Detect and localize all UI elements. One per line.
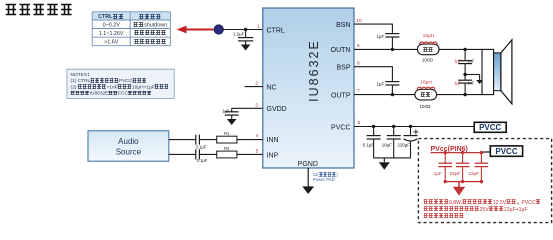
svg-text:22µF: 22µF [450, 171, 461, 176]
wire mid to ground [465, 75, 480, 81]
svg-text:FCC: FCC [118, 91, 128, 97]
junction BSP/OUTP [391, 93, 394, 96]
svg-text:25V: 25V [480, 207, 490, 213]
wire GVDD (pin 3) [232, 107, 263, 109]
svg-text:IU8632E: IU8632E [90, 91, 109, 97]
label power pad [313, 172, 338, 182]
inductor alternative 10µH (FB1) [420, 33, 438, 44]
wire cap to R1 [200, 139, 217, 141]
node CTRL input [214, 25, 223, 34]
svg-text:2.2µF: 2.2µF [233, 32, 244, 37]
svg-text:8: 8 [357, 61, 360, 67]
wire FB2 to output node [437, 93, 482, 96]
wire BSP (pin 8) [354, 66, 392, 81]
capacitor GVDD 1µF [222, 108, 239, 119]
svg-text:10µH: 10µH [420, 79, 432, 85]
svg-text:Audio: Audio [118, 137, 139, 146]
svg-text:PVCC: PVCC [479, 123, 501, 132]
capacitor alt 22µF (red) [450, 153, 470, 182]
capacitor Cp2 10µF [382, 127, 401, 158]
wire audio top [169, 139, 196, 141]
svg-text:R2: R2 [224, 146, 230, 151]
capacitor Cout2 1nF (alt 1µF) [454, 75, 475, 95]
audio source block [88, 131, 169, 161]
svg-text:PVCC: PVCC [331, 124, 350, 131]
capacitor bootstrap CBSN 1µF [376, 33, 399, 50]
ferrite bead FB1 磁珠 100Ω [417, 44, 439, 62]
svg-text:2: 2 [255, 81, 258, 87]
table CTRL states [92, 12, 170, 46]
ground (CTRL cap) [241, 45, 251, 51]
svg-text:+1nF: +1nF [107, 84, 118, 90]
svg-text:1: 1 [257, 23, 260, 29]
ground PGND [302, 186, 314, 194]
dashed note box [418, 139, 551, 223]
svg-text:3: 3 [255, 102, 258, 108]
svg-text:0.1µF: 0.1µF [196, 144, 207, 149]
wire red rail [431, 151, 484, 154]
net label PVCC [474, 122, 506, 132]
capacitor Cout1 1nF (alt 1µF) [454, 49, 475, 74]
svg-text:Source: Source [116, 147, 142, 156]
svg-text:100Ω: 100Ω [422, 57, 434, 62]
wire FB1 to output node [439, 48, 482, 51]
svg-text:7: 7 [357, 88, 360, 94]
svg-text:1µF: 1µF [222, 109, 230, 114]
ground (GVDD cap) [227, 119, 237, 125]
svg-text:10µF: 10µF [382, 143, 392, 148]
svg-text:22µF: 22µF [468, 171, 479, 176]
capacitor alt 22µF (red) [468, 153, 488, 182]
inductor alternative 10µH (FB2) [417, 79, 435, 89]
capacitor Cin2 0.1µF [196, 149, 208, 162]
svg-text:PGND: PGND [298, 161, 318, 168]
svg-text:0.8W,: 0.8W, [449, 200, 462, 206]
svg-text:22µF+1µF: 22µF+1µF [504, 207, 528, 213]
ground (output mid) [476, 80, 483, 84]
svg-text:1.1~1.26V: 1.1~1.26V [99, 31, 124, 37]
svg-text:BSP: BSP [336, 65, 350, 72]
wire red bottom rail [444, 180, 484, 183]
svg-text:(1) CTRL: (1) CTRL [71, 78, 91, 84]
resistor R1 [217, 131, 237, 143]
capacitor C1 2.2µF (CTRL) [233, 30, 253, 45]
net label PVCC (alt) [490, 146, 522, 156]
svg-text:IU8632E: IU8632E [307, 39, 321, 102]
junction BSN/OUTN [391, 48, 394, 51]
svg-text:12.5V: 12.5V [493, 200, 507, 206]
svg-text:1nF: 1nF [467, 58, 475, 63]
svg-text:10: 10 [356, 18, 362, 24]
svg-text:shutdown: shutdown [144, 22, 167, 28]
pin numbers [255, 18, 362, 154]
ground (red, arrow) [453, 182, 465, 196]
wire PVCC cap rail [374, 157, 411, 159]
svg-text:100Ω: 100Ω [419, 104, 431, 109]
note text (red) [424, 200, 540, 218]
wire R2 to INP (pin 5) [237, 153, 263, 155]
capacitor Cp1 0.1µF [363, 127, 381, 158]
svg-text:1µF: 1µF [376, 81, 384, 86]
wire NC stub (pin 2) [245, 86, 263, 88]
svg-text:9: 9 [357, 43, 360, 49]
capacitor Cin1 0.1µF [196, 135, 207, 150]
svg-text:Power PAD: Power PAD [313, 177, 335, 182]
svg-text:INP: INP [267, 152, 279, 159]
svg-text:1nF: 1nF [467, 81, 475, 86]
wire PVCC (pin 6) [354, 125, 474, 128]
wire to PVCC box [483, 151, 490, 153]
svg-text:PVCC: PVCC [522, 200, 536, 206]
svg-text:NOTES: NOTES [71, 72, 88, 78]
svg-text:1µF: 1µF [376, 34, 384, 39]
svg-text:0~0.2V: 0~0.2V [103, 22, 121, 28]
annotation arrow (CTRL) [177, 26, 214, 34]
svg-text:NC: NC [267, 84, 277, 91]
svg-text:INN: INN [267, 137, 279, 144]
svg-text:0.1µF: 0.1µF [363, 143, 375, 148]
op-amp/amplifier IC U1 IU8632E [263, 8, 354, 168]
svg-text:(2): (2) [71, 84, 77, 90]
svg-text:1µF: 1µF [454, 58, 462, 63]
svg-text:OUTN: OUTN [331, 47, 351, 54]
svg-text:CTRL: CTRL [98, 14, 113, 20]
svg-text:220µF: 220µF [397, 143, 410, 148]
wire audio bottom [169, 153, 196, 155]
svg-text:10µH+1µF: 10µH+1µF [132, 84, 155, 90]
svg-text:PVCC: PVCC [495, 147, 517, 156]
svg-text:>1.6V: >1.6V [104, 40, 119, 46]
wire cap to R2 [200, 153, 217, 155]
ground (PVCC caps) [379, 158, 390, 170]
svg-text:4: 4 [256, 133, 259, 139]
svg-text:1µF: 1µF [454, 81, 462, 86]
notes box [67, 69, 174, 98]
wire CTRL to pin 1 [222, 28, 263, 31]
svg-text:6: 6 [358, 120, 361, 126]
wire R1 to INN (pin 4) [237, 139, 263, 141]
svg-text:5: 5 [256, 148, 259, 154]
svg-text:GVDD: GVDD [267, 106, 287, 113]
label PVcc(PIN6) [431, 146, 468, 153]
svg-text:1µF: 1µF [434, 171, 442, 176]
svg-text:0.1µF: 0.1µF [197, 158, 208, 163]
svg-text:R1: R1 [224, 131, 230, 136]
svg-text:BSN: BSN [336, 22, 350, 29]
ferrite bead FB2 磁珠 100Ω [415, 89, 437, 109]
wire OUTP (pin 7) [354, 94, 415, 96]
svg-text:PVCC: PVCC [119, 78, 133, 84]
wire OUTN (pin 9) [354, 48, 417, 50]
wire BSN (pin 10) [354, 24, 392, 33]
wire PGND [307, 168, 309, 186]
junction output mid [463, 73, 466, 76]
svg-text:10µH: 10µH [423, 33, 435, 39]
resistor R2 [217, 146, 237, 158]
title 典型应用图 [6, 4, 72, 15]
capacitor alt 1µF (red) [434, 153, 452, 182]
svg-text:OUTP: OUTP [331, 92, 351, 99]
speaker LS1 [482, 40, 512, 104]
capacitor bootstrap CBSP 1µF [376, 81, 399, 95]
svg-text:CTRL: CTRL [267, 27, 285, 34]
capacitor Cp3 220µF polarized [397, 127, 418, 158]
